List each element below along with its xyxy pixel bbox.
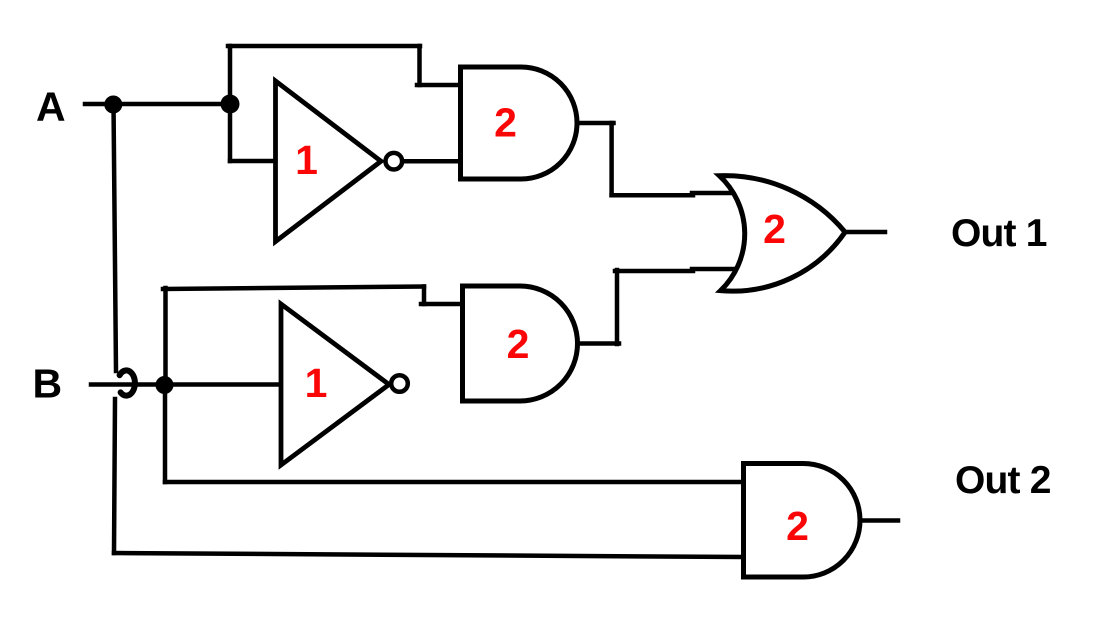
- svg-text:Out 2: Out 2: [955, 459, 1051, 502]
- svg-text:2: 2: [494, 100, 517, 146]
- wire AND2 top input stub: [421, 302, 463, 307]
- wire inverter 1 input: [230, 159, 278, 164]
- junction dot on A at inverter 1 branch: [221, 95, 240, 114]
- svg-text:A: A: [36, 84, 66, 130]
- wire junction vertical at A dot 2: [228, 46, 233, 161]
- wire to OR top input (left part): [612, 193, 693, 198]
- inverter U1 (NOT gate, label 1): [276, 81, 403, 242]
- wire inverter 1 output to AND1: [402, 159, 462, 164]
- wire AND1 top input stub: [417, 83, 462, 88]
- wire B input lead: [91, 382, 281, 387]
- AND gate U3 (top, label 2): [461, 67, 578, 179]
- wire A input lead: [85, 102, 232, 107]
- junction dot on B: [156, 376, 174, 394]
- wire to OR bottom input (right part): [692, 267, 733, 272]
- svg-text:Out 1: Out 1: [951, 212, 1047, 255]
- wire AND1 output step down: [609, 123, 614, 195]
- wire AND2 output: [575, 341, 619, 346]
- svg-text:B: B: [33, 361, 63, 407]
- svg-text:2: 2: [786, 503, 809, 549]
- wire A vertical below hop: [114, 399, 115, 553]
- wire to OR bottom input (left part): [615, 269, 693, 274]
- wire B vertical up from junction: [163, 288, 168, 385]
- wire A bypass rail over inverter 1: [228, 44, 420, 49]
- wire A to bottom AND lower input: [114, 553, 743, 557]
- wire OR output Out 1: [845, 230, 885, 235]
- wire AND3 output Out 2: [858, 518, 898, 523]
- svg-text:2: 2: [507, 321, 530, 367]
- wire AND1 output: [575, 121, 614, 126]
- AND gate U6 (bottom, label 2): [744, 464, 860, 578]
- AND gate U4 (middle, label 2): [463, 286, 578, 401]
- wire B bypass rail over inverter 2: [163, 287, 424, 290]
- wire step down into AND2 top input: [422, 287, 427, 305]
- wire B vertical down from junction: [163, 385, 168, 482]
- inverter U2 (NOT gate, label 1): [281, 304, 408, 465]
- wire AND2 output step up: [615, 270, 620, 344]
- wire A vertical drop to hop: [114, 104, 117, 371]
- wire B to bottom AND upper input: [165, 480, 743, 485]
- wire hop over B (crossing arc): [120, 370, 135, 395]
- svg-text:2: 2: [763, 206, 786, 252]
- svg-text:1: 1: [295, 137, 318, 183]
- wire to OR top input (right part): [692, 191, 733, 196]
- svg-text:1: 1: [305, 360, 328, 406]
- junction dot on A near input: [104, 96, 122, 114]
- wire step down into AND1 top input: [417, 46, 422, 85]
- OR gate U5 (label 2): [719, 176, 845, 292]
